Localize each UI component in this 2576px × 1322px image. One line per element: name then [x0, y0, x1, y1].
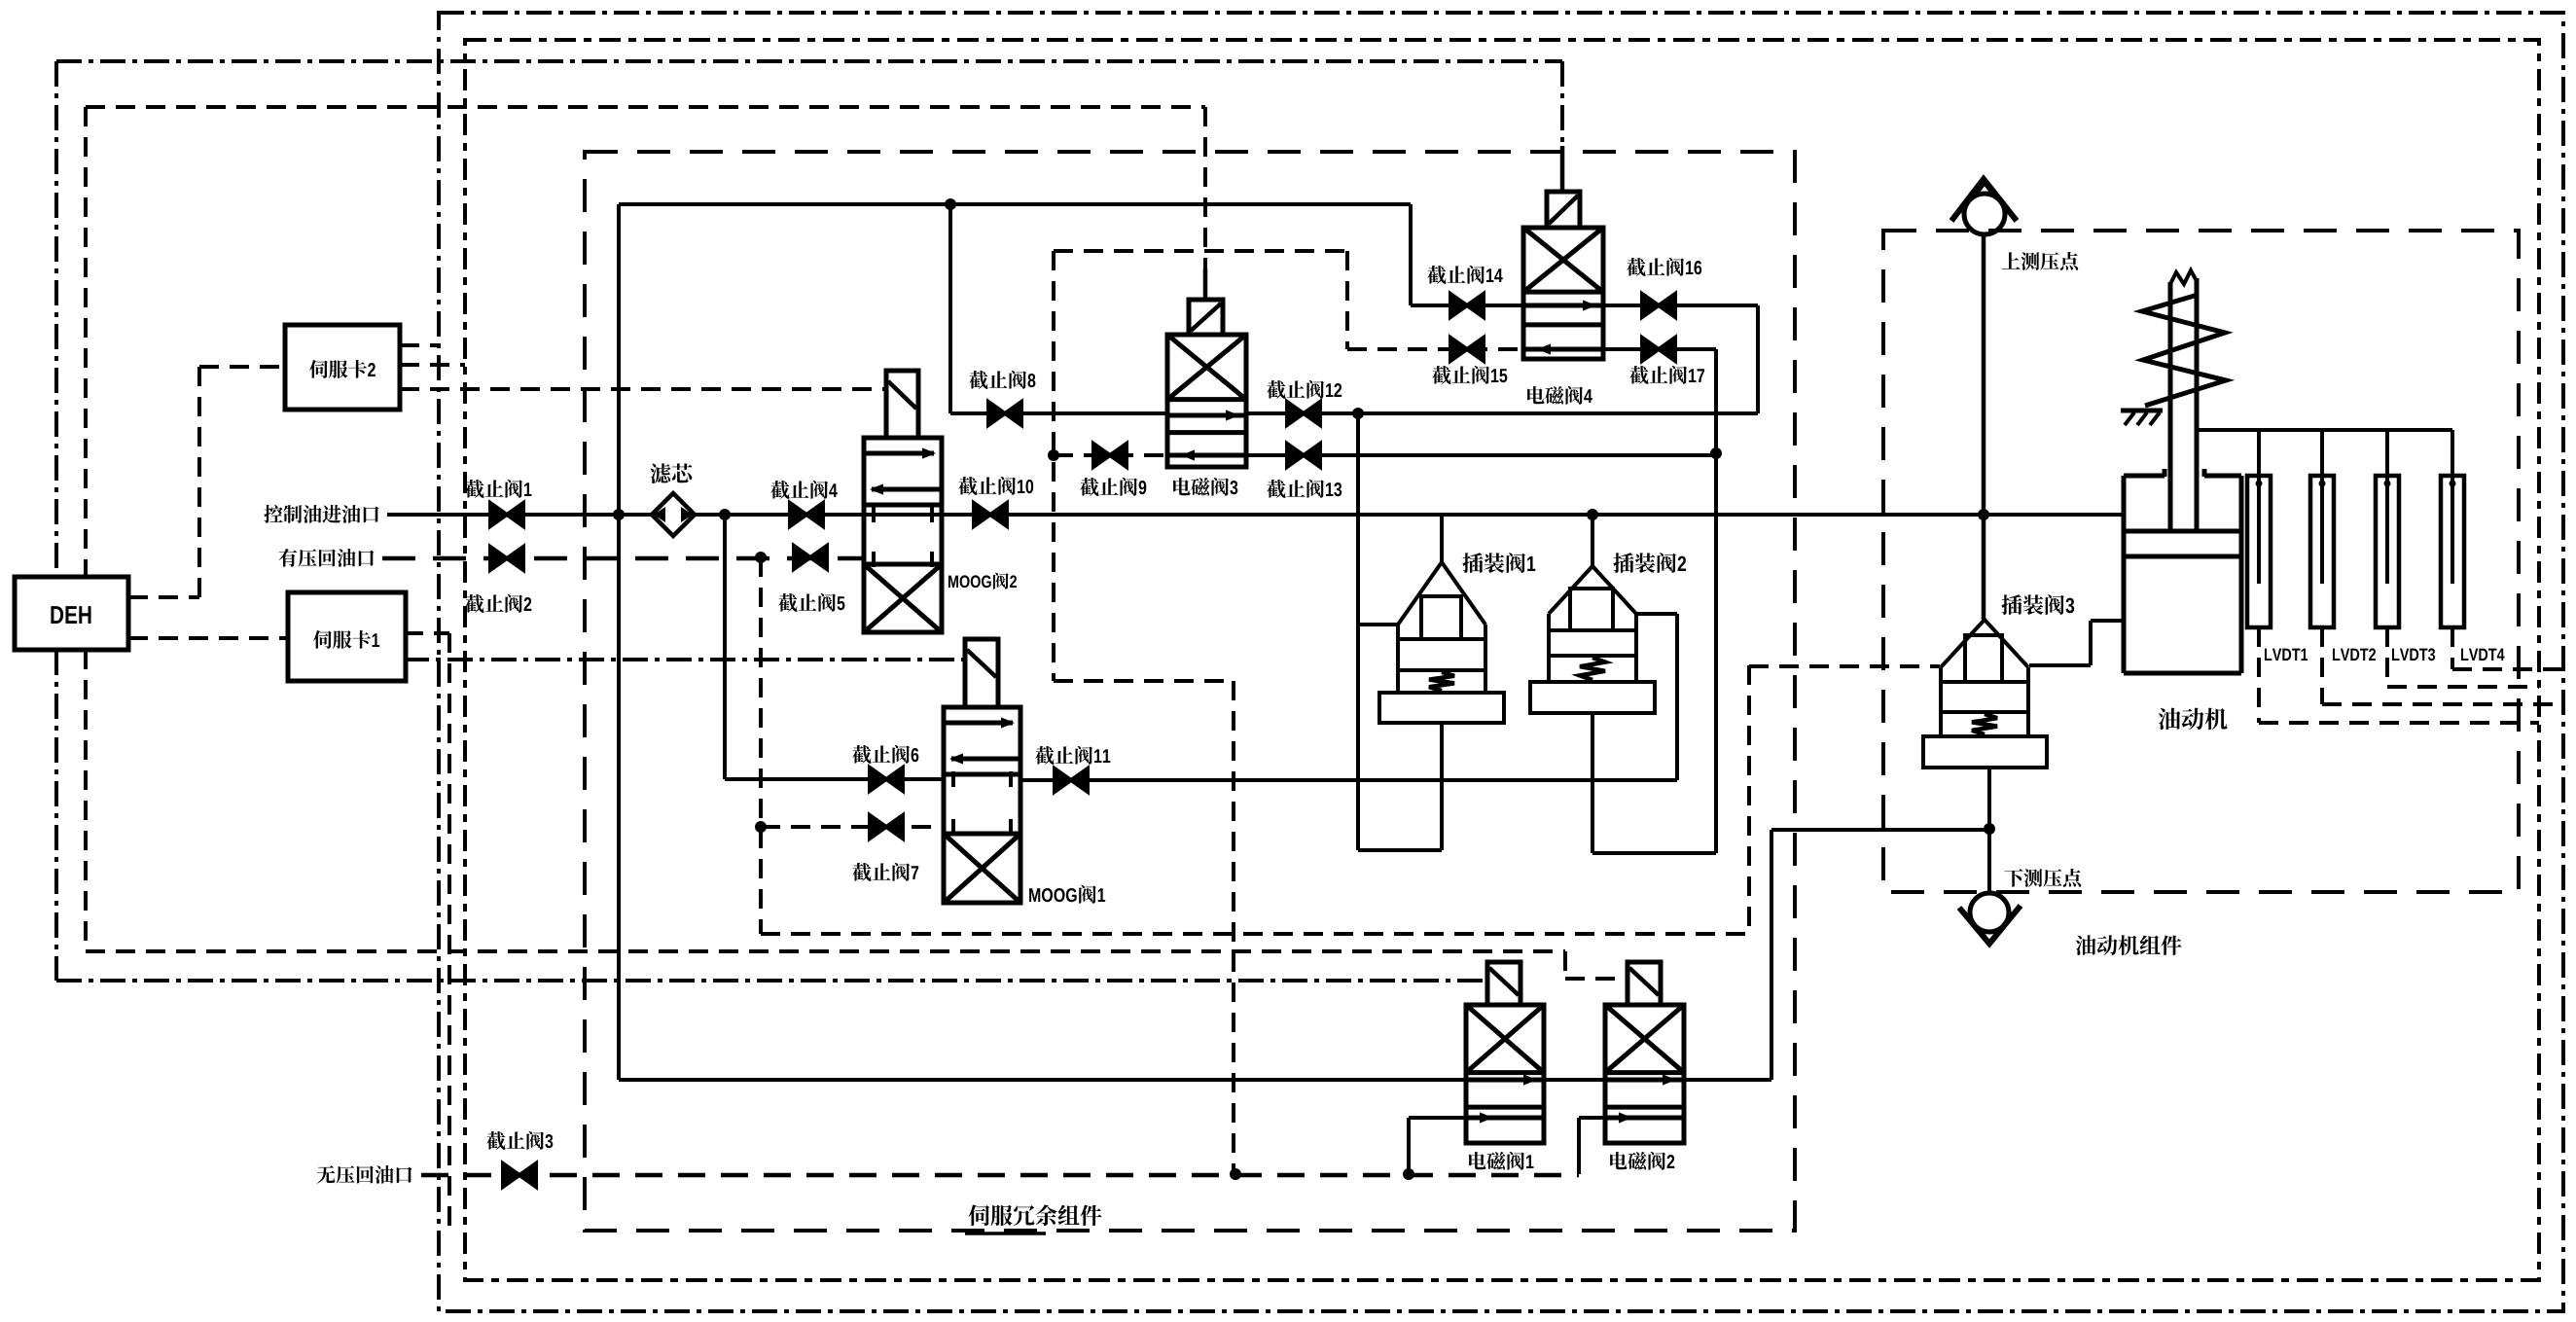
node filter-in junction — [613, 509, 625, 520]
node drain junction — [1048, 449, 1059, 461]
node 插装阀2 supply junction — [1587, 509, 1598, 520]
wire DEH to 伺服卡1 — [128, 636, 288, 640]
wire 截止阀8 line — [950, 411, 1167, 415]
wire main control-oil line — [387, 513, 2124, 517]
wire 插装阀1 pilot stem — [1440, 515, 1444, 562]
wire no-pressure return line (dashed) — [421, 1173, 1579, 1178]
wire 电磁阀4 supply drop — [1409, 204, 1413, 305]
MOOG valve MOOG阀1 — [944, 707, 1020, 903]
wire drain bottom run — [761, 932, 1749, 936]
wire 截止阀17 line — [1603, 347, 1716, 351]
wire LVDT stems — [2257, 430, 2261, 476]
wire LVDT4 feedback — [2451, 627, 2454, 669]
wire DEH top dashed riser — [84, 107, 88, 577]
wire 插装阀2 right arm — [1636, 612, 1677, 616]
node 截止阀5 branch — [755, 552, 767, 563]
stop valve 截止阀4 — [790, 503, 806, 526]
wire dash-dot to 电磁阀1 pilot — [56, 979, 1487, 983]
wire 电磁阀3 return top run — [1054, 249, 1347, 253]
MOOG valve MOOG阀2 — [864, 438, 942, 632]
wire return L to 电磁阀2 — [1577, 1118, 1581, 1174]
filter 滤芯 — [652, 493, 695, 536]
node 截止阀7 branch — [755, 821, 767, 833]
sensor LVDT4 — [2441, 476, 2464, 627]
wire 插装阀3 right arm — [2029, 663, 2091, 667]
wire MOOG阀1 supply line — [725, 777, 944, 781]
wire between 电磁阀1 and 电磁阀2 — [1544, 1078, 1605, 1082]
stop valve 截止阀9 — [1093, 444, 1110, 467]
wire DEH top dash-dot riser — [54, 61, 58, 577]
wire 伺服卡2 to MOOG阀2 pilot — [400, 387, 886, 391]
wire bottom header to 电磁阀1/2 — [619, 1078, 1466, 1082]
actuator cylinder 油动机 — [2124, 474, 2165, 479]
stop valve 截止阀5 — [794, 546, 810, 569]
block 伺服卡1 — [288, 592, 406, 681]
solenoid valve 电磁阀4 — [1523, 228, 1603, 359]
wire 截止阀9 line (dashed) — [1054, 453, 1167, 457]
wire 伺服卡1 upper branch — [404, 631, 449, 635]
stop valve 截止阀1 — [490, 503, 507, 526]
actuator spring — [2142, 295, 2226, 406]
wire feedback loop inner (dashed) to 伺服卡2 — [465, 40, 2539, 1280]
enclosure 伺服冗余组件 — [585, 152, 1795, 1231]
wire 电磁阀3 drain to return — [1054, 679, 1234, 683]
cartridge valve 插装阀3 — [1941, 620, 2028, 667]
wire DEH bottom dashed riser — [84, 650, 88, 951]
port label 有压回油口 — [279, 549, 375, 567]
stop valve 截止阀10 — [974, 503, 990, 526]
port label 控制油进油口 — [264, 505, 378, 523]
stop valve 截止阀12 — [1287, 402, 1304, 425]
node return junction b — [1403, 1168, 1414, 1180]
stop valve 截止阀8 — [988, 402, 1005, 425]
check valve 上测压点 — [1964, 194, 2005, 234]
stop valve 截止阀7 — [870, 815, 886, 839]
wire 伺服卡2 to outer loop — [400, 343, 439, 347]
cartridge valve 插装阀2 — [1549, 566, 1636, 614]
solenoid valve 电磁阀1 — [1466, 1005, 1544, 1143]
wire LVDT3 feedback — [2385, 627, 2389, 687]
node 下测压点 junction — [1984, 823, 1995, 835]
wire return L to 电磁阀1 — [1407, 1118, 1411, 1174]
stop valve 截止阀11 — [1055, 768, 1071, 792]
wire 插装阀1 left leg — [1356, 413, 1360, 850]
block 伺服卡2 — [285, 325, 400, 410]
wire 上测压点 riser — [1982, 233, 1986, 620]
wire DEH bottom dash-dot riser — [54, 650, 58, 981]
node 截止阀12 junction — [1352, 408, 1364, 419]
actuator piston rod — [2168, 282, 2173, 531]
wire LVDT2 feedback — [2320, 627, 2324, 704]
block DEH — [15, 577, 128, 650]
wire top supply header y210 — [619, 202, 1411, 206]
check valve 下测压点 — [1970, 893, 2009, 932]
node x1764 junction — [1710, 447, 1722, 459]
wire pressurized return line (dashed) — [382, 556, 864, 561]
ground anchor — [2121, 409, 2163, 413]
wire LVDT bracket — [2197, 428, 2452, 432]
wire supply riser x636 — [617, 204, 621, 1080]
wire 电磁阀3 return riser — [1052, 251, 1055, 681]
stop valve 截止阀15 — [1450, 338, 1467, 361]
label 伺服冗余组件 — [969, 1204, 1102, 1226]
stop valve 截止阀17 — [1642, 338, 1659, 361]
wire 截止阀12 line — [1246, 411, 1758, 415]
wire branch to MOOG阀1 supply — [723, 515, 727, 779]
node return junction a — [1230, 1168, 1241, 1180]
wire 插装阀1 bottom stem — [1440, 723, 1444, 850]
stop valve 截止阀16 — [1642, 294, 1659, 317]
stop valve 截止阀14 — [1450, 294, 1467, 317]
solenoid valve 电磁阀2 — [1605, 1005, 1684, 1143]
wire dashed to 电磁阀2 pilot — [86, 949, 1565, 953]
wire drop to 截止阀8 — [948, 204, 952, 413]
wire 插装阀1 left arm — [1358, 623, 1398, 626]
label 油动机组件 — [2076, 935, 2182, 955]
wire 截止阀7 line (dashed) — [761, 825, 944, 829]
wire 伺服卡1 to MOOG阀1 pilot — [404, 658, 965, 661]
wire LVDT1 feedback — [2257, 627, 2261, 723]
enclosure 油动机组件 — [1883, 231, 2519, 892]
stop valve 截止阀2 — [490, 547, 507, 570]
wire dash-dot to 电磁阀4 pilot — [56, 59, 1562, 63]
port label 无压回油口 — [317, 1165, 412, 1184]
wire 截止阀13 line — [1246, 453, 1716, 457]
wire 截止阀15 line (dashed) — [1347, 347, 1523, 351]
sensor LVDT2 — [2310, 476, 2334, 627]
wire 插装阀3 bottom stem — [1987, 768, 1991, 893]
wire 伺服卡2 to inner loop — [400, 363, 465, 367]
wire 截止阀16 line — [1603, 304, 1758, 307]
wire 插装阀2 pilot stem — [1591, 515, 1594, 566]
cartridge valve 插装阀1 — [1398, 562, 1485, 625]
stop valve 截止阀3 — [503, 1163, 519, 1187]
solenoid valve 电磁阀3 — [1167, 335, 1246, 467]
stop valve 截止阀13 — [1287, 444, 1304, 467]
wire MOOG阀1 output — [1020, 778, 1677, 782]
node supply junction at 插装阀3 — [1978, 509, 1989, 520]
sensor LVDT3 — [2376, 476, 2399, 627]
node header junction — [945, 198, 956, 210]
sensor LVDT1 — [2247, 476, 2271, 627]
wire 插装阀2 bottom stem — [1591, 713, 1594, 853]
wire dashed drain riser x782 — [759, 557, 763, 934]
wire drain riser to 插装阀3 — [1747, 665, 1751, 934]
wire riser x1764 — [1714, 349, 1718, 853]
wire DEH to 伺服卡2 — [128, 595, 199, 599]
wire 电磁阀2 output — [1684, 1078, 1771, 1082]
node filter-out junction — [719, 509, 731, 520]
stop valve 截止阀6 — [870, 768, 886, 791]
wire dashed to 电磁阀3 pilot — [86, 105, 1205, 109]
